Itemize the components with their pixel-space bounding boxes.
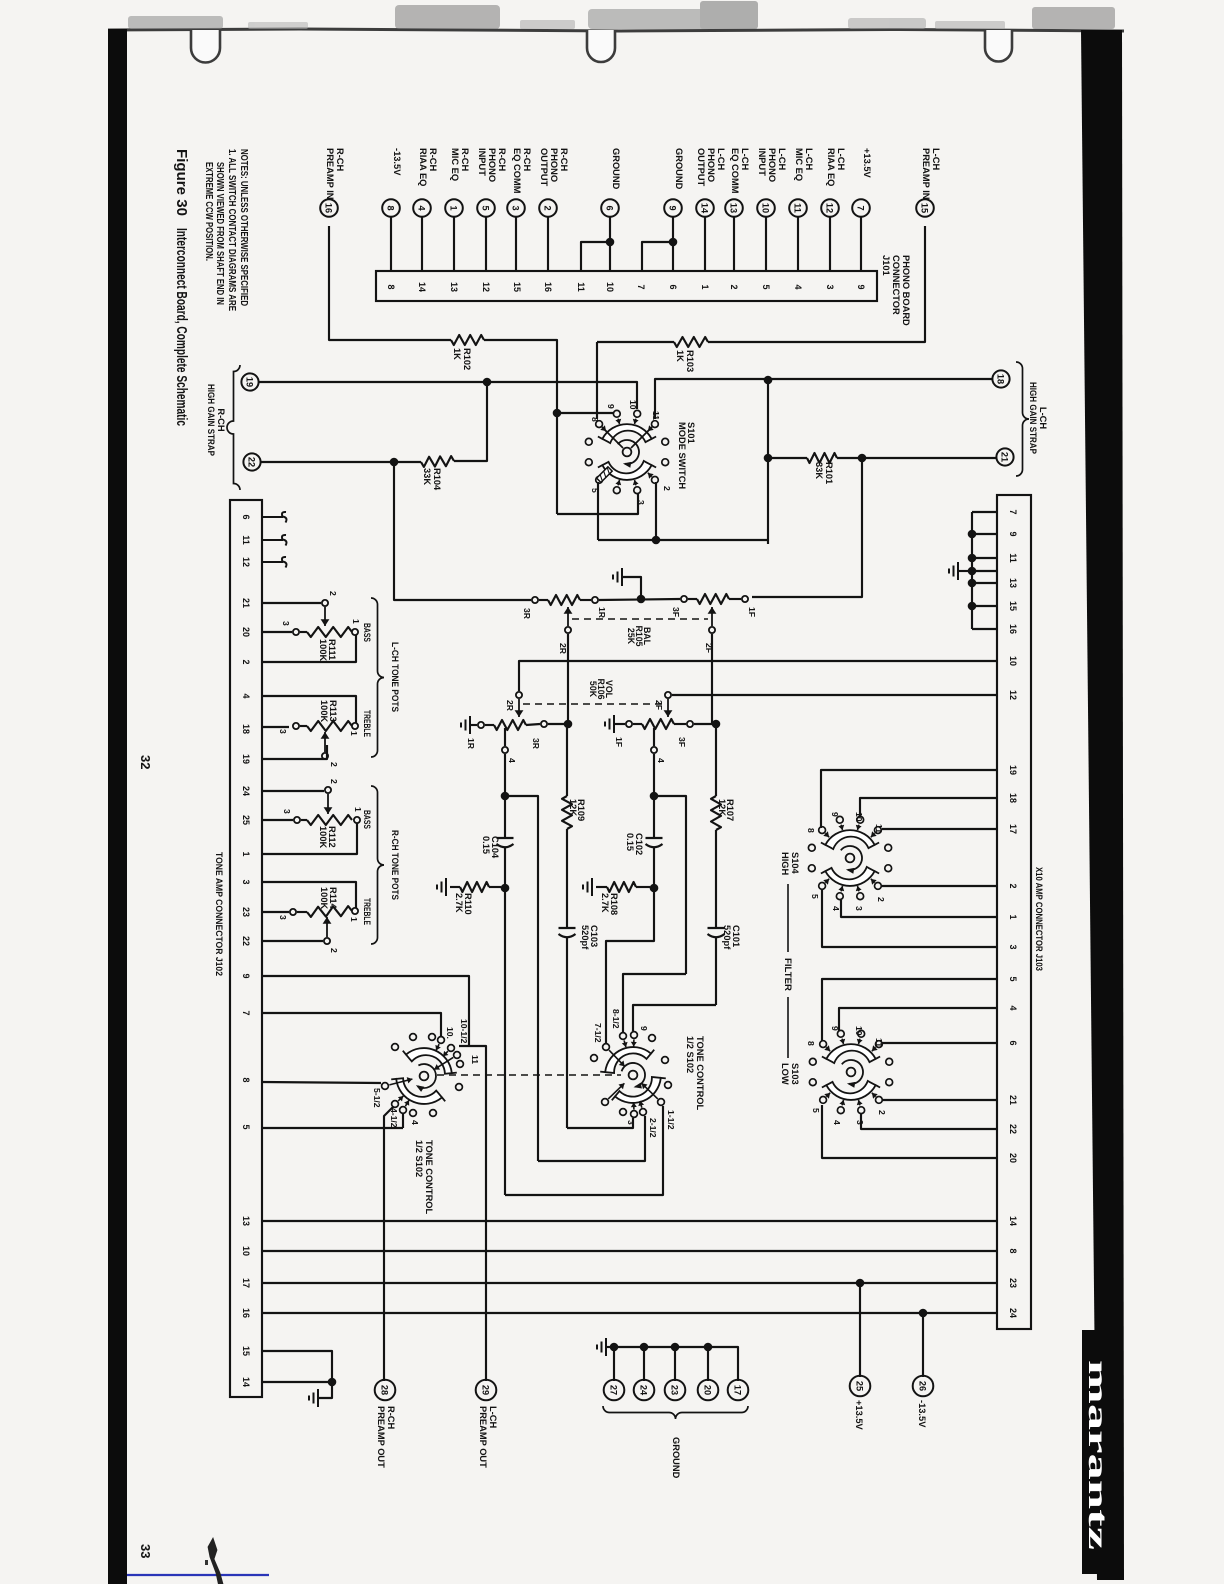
svg-text:R102: R102 [462, 348, 472, 370]
svg-text:PREAMP OUT: PREAMP OUT [376, 1406, 386, 1468]
junction VOL F node [712, 720, 721, 729]
svg-text:1K: 1K [675, 350, 685, 362]
pot R111 bass L element [300, 631, 307, 633]
hole punch 1 [191, 30, 220, 63]
svg-text:CONNECTOR: CONNECTOR [891, 255, 901, 315]
svg-text:HIGH: HIGH [780, 852, 790, 876]
svg-text:Figure 30: Figure 30 [173, 149, 190, 216]
svg-text:22: 22 [241, 936, 251, 946]
svg-text:EQ COMM: EQ COMM [730, 148, 740, 194]
wire 22-node down to BAL 3R [394, 462, 531, 600]
svg-text:25: 25 [855, 1381, 865, 1391]
wire S101 bottom bus to L-CH [598, 539, 768, 541]
pot R106 VOL terminal 1R [478, 722, 484, 728]
terminal 16 J101 row [320, 199, 338, 217]
junction R102 node [553, 409, 562, 418]
terminal 9 J101 row [664, 199, 682, 217]
wire terminal 12 to J101 [829, 217, 831, 271]
svg-text:11: 11 [874, 1038, 884, 1047]
brace R-CH tone pots [371, 786, 384, 944]
junction -13.5V node [919, 1309, 928, 1318]
wire R107 to C101 [715, 830, 717, 928]
wire VOL F 4-terminal [653, 728, 655, 746]
svg-text:3: 3 [511, 205, 521, 210]
wire terminal 14 to J101 [704, 217, 706, 271]
svg-text:11: 11 [793, 203, 803, 213]
svg-text:0.15: 0.15 [625, 833, 635, 851]
ground bus J103 [971, 512, 973, 629]
filter bracket lines [787, 884, 789, 952]
svg-text:25: 25 [241, 815, 251, 825]
wire R110 node down [504, 892, 506, 1195]
svg-text:16: 16 [241, 1308, 251, 1318]
svg-text:12K: 12K [568, 799, 578, 816]
terminal 20 ground [698, 1380, 719, 1401]
svg-text:BASS: BASS [362, 623, 372, 642]
svg-text:3F: 3F [671, 607, 681, 617]
svg-text:10: 10 [854, 812, 864, 822]
svg-text:15: 15 [1008, 601, 1018, 611]
wire S101 pin 2 drop [655, 482, 657, 540]
wire J102 pin25 to R112 t3 [262, 819, 293, 821]
svg-text:2: 2 [729, 284, 739, 289]
pot R106 VOL terminal 3R [541, 721, 547, 727]
svg-text:8: 8 [386, 205, 396, 210]
svg-text:4: 4 [793, 284, 803, 289]
svg-text:9: 9 [1008, 531, 1018, 536]
ink smudge bottom left [208, 1538, 223, 1584]
svg-text:15: 15 [512, 282, 522, 292]
svg-text:2: 2 [876, 897, 886, 902]
svg-text:S103: S103 [790, 1063, 800, 1085]
svg-text:3R: 3R [522, 608, 532, 620]
connector J102 tone amp box [230, 500, 262, 1397]
wire R101 left segment [768, 457, 807, 459]
svg-text:3: 3 [825, 284, 835, 289]
pot R106 VOL terminal 3F [687, 721, 693, 727]
svg-text:2F: 2F [704, 643, 714, 653]
terminal 14 J101 row [696, 199, 714, 217]
svg-text:L-CH: L-CH [931, 148, 941, 170]
svg-text:L-CH: L-CH [740, 148, 750, 170]
svg-text:J101: J101 [881, 255, 891, 276]
brace R-CH high gain strap [227, 365, 240, 490]
terminal 17 ground [728, 1380, 749, 1401]
svg-text:22: 22 [247, 457, 257, 467]
terminal 6 J101 row [601, 199, 619, 217]
pot R105 BAL terminal 3F [681, 596, 687, 602]
svg-text:12: 12 [241, 557, 251, 567]
pot R113 treble L wiper [322, 753, 328, 759]
ground bus output terminals [611, 1347, 738, 1381]
wire J102 pin23 to R114 t3 [262, 911, 289, 913]
ground VOL R-half [469, 716, 471, 734]
terminal 8 J101 row [382, 199, 400, 217]
svg-text:+13.5V: +13.5V [862, 148, 872, 179]
pot R105 BAL terminal 1F [742, 596, 748, 602]
rotary switch S103 filter low [822, 1044, 880, 1063]
svg-text:24: 24 [639, 1385, 649, 1396]
pot R112 wiper [325, 787, 331, 793]
svg-text:TONE CONTROL: TONE CONTROL [424, 1140, 434, 1215]
wire J102 pin8 to S102L contact 5-1/2 [262, 1082, 381, 1083]
svg-text:GROUND: GROUND [611, 148, 621, 190]
wire 3F to junction [694, 723, 716, 725]
svg-text:7: 7 [856, 205, 866, 210]
svg-text:L-CH: L-CH [836, 148, 846, 170]
terminal 29 L-CH preamp out [476, 1380, 497, 1401]
svg-text:33K: 33K [814, 462, 824, 479]
wire R108 node down [653, 892, 655, 938]
wire S101 pin 8 riser [596, 342, 598, 419]
svg-text:10: 10 [605, 282, 615, 292]
wire J103 pin17 to S104 contact 11 [882, 828, 997, 830]
svg-text:28: 28 [380, 1385, 390, 1395]
wire to terminal 26 [922, 1313, 924, 1377]
wire J102 pin16 to J103 pin24 [262, 1312, 997, 1314]
junction 22-row node [390, 458, 399, 467]
pot R106 terminal 4F [651, 747, 657, 753]
pot R112 element [301, 819, 307, 821]
wire terminal 2 to J101 [547, 217, 549, 271]
ground VOL F-half [613, 715, 615, 733]
svg-text:INPUT: INPUT [477, 148, 487, 176]
wire terminal 22 row [261, 461, 421, 463]
svg-text:5: 5 [481, 205, 491, 210]
wire S102L 10-1/2 node across [459, 1046, 486, 1381]
svg-text:12: 12 [825, 203, 835, 213]
terminal 10 J101 row [757, 199, 775, 217]
wire J103 pin5 to S103 contact 8 [822, 979, 997, 1041]
wire terminal 5 to J101 [485, 217, 487, 271]
wire terminal 8 to J101 [390, 217, 392, 271]
svg-text:9: 9 [830, 812, 840, 817]
svg-text:1: 1 [241, 851, 251, 856]
svg-text:2: 2 [328, 591, 338, 596]
wire R-CH preamp in from terminal 16 [329, 226, 451, 340]
svg-text:L-CH: L-CH [777, 148, 787, 170]
svg-text:5: 5 [761, 284, 771, 289]
svg-text:PHONO: PHONO [767, 148, 777, 182]
svg-text:23: 23 [670, 1385, 680, 1395]
svg-text:R104: R104 [432, 468, 442, 491]
svg-text:Interconnect Board, Complete S: Interconnect Board, Complete Schematic [173, 228, 190, 426]
wire vertical link 18-row to bottom bus [767, 380, 769, 544]
junction VOL R node [564, 720, 573, 729]
wire J102 pin2 to R111 t1 [262, 635, 356, 662]
svg-text:PHONO: PHONO [706, 148, 716, 182]
svg-text:L-CH: L-CH [804, 148, 814, 170]
svg-text:4: 4 [417, 205, 427, 211]
wire VOL R 4-terminal [504, 728, 506, 746]
svg-text:2: 2 [1008, 883, 1018, 888]
svg-text:X10 AMP CONNECTOR J103: X10 AMP CONNECTOR J103 [1034, 867, 1044, 971]
right black page bar [1081, 30, 1124, 1580]
terminal 13 J101 row [725, 199, 743, 217]
svg-text:R-CH: R-CH [386, 1406, 396, 1430]
svg-text:18: 18 [1008, 793, 1018, 803]
svg-text:13: 13 [449, 282, 459, 292]
svg-text:6: 6 [605, 205, 615, 210]
junction 18-row node [764, 376, 773, 385]
left black page bar [108, 29, 127, 1584]
wire C101 down [715, 938, 717, 1005]
svg-text:13: 13 [241, 1216, 251, 1226]
svg-text:TREBLE: TREBLE [362, 898, 372, 925]
ground J102 pins 14-15 [317, 1389, 319, 1407]
pot R111 bass L wiper [322, 600, 328, 606]
svg-text:10-1/2: 10-1/2 [459, 1019, 469, 1044]
svg-text:L-CH: L-CH [1038, 407, 1048, 429]
svg-text:8: 8 [1008, 1248, 1018, 1253]
terminal 5 J101 row [477, 199, 495, 217]
wire S101 pins 5-3 bottom [557, 493, 638, 514]
ground BAL [622, 577, 641, 599]
svg-text:1/2 S102: 1/2 S102 [685, 1036, 695, 1073]
junction R101 left node [764, 454, 773, 463]
pot R106 wiper R [516, 692, 522, 698]
pot R106 terminal 4R [502, 747, 508, 753]
wire terminal 10 to J101 [765, 217, 767, 271]
pot R111 bass L terminal 3 [293, 629, 299, 635]
svg-text:24: 24 [1008, 1308, 1018, 1318]
svg-text:10: 10 [241, 1246, 251, 1256]
pot R114 terminal 1 [352, 908, 358, 914]
wire S103 contact 2 to J103 pin21 [882, 1099, 997, 1101]
svg-text:2: 2 [662, 486, 672, 491]
svg-text:11: 11 [874, 824, 884, 833]
svg-text:27: 27 [609, 1385, 619, 1395]
svg-text:5: 5 [810, 894, 820, 899]
svg-text:9: 9 [856, 284, 866, 289]
svg-text:2R: 2R [505, 700, 515, 712]
wire R103 to terminal 15 [708, 226, 925, 342]
wire J103 pin2 to S104 contact 2 [882, 885, 997, 887]
svg-text:TREBLE: TREBLE [362, 710, 372, 737]
wire 21-node down to BAL 1F [752, 458, 862, 597]
wire R103 row [597, 341, 674, 343]
svg-text:1. ALL SWITCH CONTACT DIAGRAM: 1. ALL SWITCH CONTACT DIAGRAMS ARE [226, 149, 237, 311]
svg-text:INPUT: INPUT [757, 148, 767, 176]
svg-text:1-1/2: 1-1/2 [666, 1110, 676, 1130]
wire BAL 1R to ground node [599, 599, 680, 600]
wire J103 pin19 to S104 contact 8 [821, 770, 997, 828]
wire J102 pin21 to R111 wiper [262, 602, 321, 604]
svg-text:4: 4 [507, 758, 517, 763]
svg-text:L-CH: L-CH [716, 148, 726, 170]
terminal 18 L-CH high gain strap [992, 370, 1009, 387]
svg-text:12: 12 [481, 282, 491, 292]
wire J102 pin24 to R112 wiper [262, 790, 324, 792]
svg-text:20: 20 [1008, 1153, 1018, 1163]
svg-text:HIGH GAIN STRAP: HIGH GAIN STRAP [1028, 382, 1038, 454]
resistor R107 [711, 796, 721, 830]
svg-text:4: 4 [410, 1120, 420, 1125]
svg-text:100K: 100K [318, 639, 328, 662]
pot R105 wiper F [711, 607, 713, 626]
ground R108 [591, 878, 593, 896]
svg-text:5: 5 [1008, 976, 1018, 981]
wire J102 pin20 to R111 t3 [262, 631, 292, 633]
svg-text:9: 9 [639, 1026, 649, 1031]
svg-text:2.7K: 2.7K [600, 893, 610, 913]
pot R105 BAL terminal 1R [592, 597, 598, 603]
svg-text:100K: 100K [319, 887, 329, 910]
svg-text:MIC EQ: MIC EQ [450, 148, 460, 181]
blue pen line bottom left [127, 1574, 269, 1576]
svg-text:1: 1 [353, 807, 363, 812]
svg-text:17: 17 [241, 1278, 251, 1288]
capacitor C101 [708, 927, 725, 929]
svg-text:3R: 3R [531, 738, 541, 750]
svg-text:R-CH: R-CH [428, 148, 438, 172]
svg-text:33: 33 [138, 1544, 153, 1558]
svg-text:3: 3 [1008, 944, 1018, 949]
svg-text:14: 14 [1008, 1216, 1018, 1226]
svg-text:3F: 3F [677, 737, 687, 747]
svg-text:10: 10 [854, 1026, 864, 1036]
svg-text:11: 11 [651, 411, 661, 420]
hole punch 2 [587, 30, 615, 62]
svg-text:RIAA EQ: RIAA EQ [826, 148, 836, 186]
svg-text:1K: 1K [452, 348, 462, 360]
svg-text:2F: 2F [654, 700, 664, 710]
wire R109 to C103 [566, 829, 568, 928]
pot R105 BAL terminal 3R [532, 597, 538, 603]
svg-text:R-CH: R-CH [216, 408, 226, 432]
resistor R108 [607, 882, 636, 892]
wire J102 pin5 row [262, 1127, 403, 1129]
resistor R104 [421, 456, 454, 467]
svg-text:8: 8 [241, 1077, 251, 1082]
wire VOL F node down [715, 728, 717, 796]
wire J102 pin10 to J103 pin8 [262, 1250, 997, 1252]
wire to terminal 25 [859, 1283, 861, 1377]
svg-text:1: 1 [449, 205, 459, 210]
svg-text:2: 2 [543, 205, 553, 210]
svg-text:3: 3 [854, 906, 864, 911]
svg-text:1: 1 [349, 917, 359, 922]
wire terminal 11 to J101 [797, 217, 799, 271]
svg-text:EQ COMM: EQ COMM [512, 148, 522, 194]
svg-text:BASS: BASS [362, 810, 372, 829]
ground J103 [958, 570, 972, 572]
terminal 27 ground [604, 1380, 625, 1401]
svg-text:L-CH: L-CH [488, 1406, 498, 1428]
wire S104 contact 5 to J103 pin3 [822, 890, 997, 947]
svg-text:2-1/2: 2-1/2 [648, 1118, 658, 1138]
svg-text:10: 10 [761, 203, 771, 213]
wire terminal 6 to J101 [609, 217, 611, 271]
wire branch to S102R contact 2-1/2 [538, 1116, 645, 1161]
junction +13.5V node [856, 1279, 865, 1288]
svg-text:1F: 1F [747, 607, 757, 617]
wire J102 pin19 to R113 wiper [262, 745, 327, 759]
svg-text:5: 5 [590, 488, 600, 493]
svg-text:L-CH TONE POTS: L-CH TONE POTS [390, 642, 400, 712]
svg-text:1: 1 [351, 619, 361, 624]
pot R112 terminal 1 [354, 817, 360, 823]
pot R113 treble L element [300, 725, 307, 727]
terminal 21 L-CH high gain strap [996, 448, 1013, 465]
wire S104 contact 4 to J103 pin1 [841, 900, 997, 917]
svg-text:7: 7 [636, 284, 646, 289]
svg-text:-13.5V: -13.5V [392, 148, 402, 176]
svg-text:PREAMP OUT: PREAMP OUT [478, 1406, 488, 1468]
svg-text:100K: 100K [318, 826, 328, 849]
wire J102 pin9 to S102L [262, 976, 469, 1046]
terminal 7 J101 row [852, 199, 870, 217]
svg-text:1: 1 [700, 284, 710, 289]
svg-text:2: 2 [241, 659, 251, 664]
wire terminal 9 to J101 [672, 217, 674, 271]
pot R105 wiper R [567, 607, 569, 626]
wire branch to S102R contact 8-1/2 [623, 974, 686, 1032]
connector J101 phono board box [376, 271, 877, 301]
svg-text:16: 16 [543, 282, 553, 292]
svg-text:FILTER: FILTER [783, 958, 793, 991]
svg-text:12: 12 [1008, 690, 1018, 700]
svg-text:10: 10 [628, 400, 638, 410]
wire J102 pin22 to R114 wiper [262, 940, 323, 942]
ground R110 [445, 878, 447, 896]
svg-text:32: 32 [138, 755, 153, 769]
svg-text:3: 3 [626, 1120, 636, 1125]
pot R113 treble L terminal 1 [352, 723, 358, 729]
wire 4F branch right [654, 796, 686, 974]
svg-text:8-1/2: 8-1/2 [611, 1009, 621, 1029]
pot R106 VOL R-half element [494, 720, 526, 730]
svg-text:19: 19 [245, 377, 255, 387]
pot R106 VOL terminal 1F [626, 721, 632, 727]
svg-text:2.7K: 2.7K [454, 893, 464, 913]
svg-text:5-1/2: 5-1/2 [372, 1088, 382, 1108]
svg-text:100K: 100K [319, 700, 329, 723]
svg-text:21: 21 [1000, 452, 1010, 462]
svg-text:8: 8 [590, 417, 600, 422]
svg-text:2: 2 [329, 779, 339, 784]
svg-text:18: 18 [996, 374, 1006, 384]
svg-text:4-1/2: 4-1/2 [389, 1108, 399, 1128]
svg-text:13: 13 [1008, 578, 1018, 588]
svg-text:1/2 S102: 1/2 S102 [414, 1140, 424, 1177]
svg-text:14: 14 [241, 1377, 251, 1387]
svg-text:TONE AMP CONNECTOR J102: TONE AMP CONNECTOR J102 [214, 852, 224, 976]
svg-text:R101: R101 [824, 462, 834, 484]
svg-text:R-CH: R-CH [335, 148, 345, 172]
svg-text:15: 15 [241, 1346, 251, 1356]
svg-text:23: 23 [1008, 1278, 1018, 1288]
svg-text:9: 9 [668, 205, 678, 210]
svg-text:2: 2 [329, 762, 339, 767]
junction strap 19 node [483, 378, 492, 387]
svg-text:1R: 1R [597, 607, 607, 619]
terminal 23 ground [665, 1380, 686, 1401]
wire 4R branch right [505, 796, 538, 1161]
svg-text:4: 4 [1008, 1005, 1018, 1010]
wire to S102R contact 1-1/2 [505, 1106, 663, 1195]
svg-text:21: 21 [1008, 1095, 1018, 1105]
svg-text:TONE CONTROL: TONE CONTROL [695, 1036, 705, 1111]
svg-text:13: 13 [729, 203, 739, 213]
gang line R106 [523, 703, 664, 705]
pot R105 BAL F-half element [697, 594, 729, 604]
pot R105 BAL R-half element [548, 595, 580, 605]
svg-text:1F: 1F [614, 737, 624, 747]
capacitor C103 [559, 927, 576, 929]
junction 4F node [650, 792, 659, 801]
svg-text:S104: S104 [790, 852, 800, 875]
